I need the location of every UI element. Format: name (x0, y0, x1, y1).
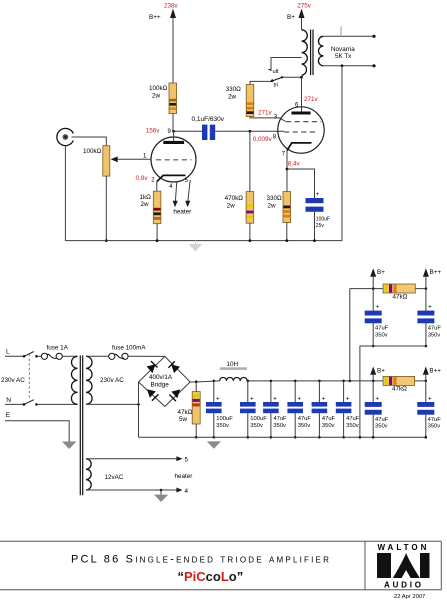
wire secondary top lead (323, 35, 374, 37)
wire secondary top to fuse (86, 355, 109, 357)
svg-text:8,4v: 8,4v (288, 161, 301, 168)
resistor 100k plate (triode anode load) (149, 83, 177, 114)
switch mains L (24, 352, 34, 357)
transformer T1 core (80, 355, 82, 495)
svg-text:+: + (297, 395, 301, 402)
svg-text:350v: 350v (273, 423, 286, 429)
wire L (5, 355, 24, 357)
svg-text:+: + (316, 191, 320, 198)
svg-text:+: + (322, 395, 326, 402)
svg-text:4: 4 (185, 488, 189, 495)
node B++ upper arrow (423, 268, 441, 290)
svg-text:47uF: 47uF (375, 326, 389, 332)
wire heater pin 4 (86, 488, 189, 495)
wire E to ground (5, 421, 69, 442)
wire anode to coupling cap (174, 130, 202, 132)
svg-text:2w: 2w (228, 93, 237, 100)
svg-text:100kΩ: 100kΩ (149, 85, 168, 92)
triode U1a PCL86 (151, 131, 196, 182)
transformer secondary (318, 36, 323, 66)
svg-text:E: E (6, 412, 11, 419)
transformer T1 mains primary (71, 356, 77, 404)
svg-text:47uF: 47uF (428, 417, 442, 423)
capacitor C3 47uF 350v (263, 380, 287, 439)
wire secondary bottom to bridge left leg (86, 403, 139, 405)
svg-text:400v/1A: 400v/1A (149, 374, 173, 381)
title block top line (0, 540, 441, 542)
0v rail power supply (139, 436, 426, 438)
svg-text:+: + (428, 395, 432, 402)
potentiometer 100k volume (83, 146, 110, 176)
svg-text:2w: 2w (268, 202, 277, 209)
svg-text:ult: ult (273, 69, 280, 75)
svg-text:5K Tx: 5K Tx (335, 53, 352, 60)
switch ul/tri (269, 69, 284, 89)
svg-text:12vAC: 12vAC (105, 474, 124, 481)
node heater ground junction (160, 489, 163, 492)
wire bridge + output rail (190, 381, 196, 383)
wire jack shell down (64, 146, 66, 241)
node secondary to ground drop (341, 64, 344, 67)
svg-text:275v: 275v (297, 3, 312, 10)
wire plate resistor to anode node (172, 114, 174, 132)
svg-text:238v: 238v (164, 3, 179, 10)
svg-text:+: + (375, 303, 379, 310)
svg-text:230v AC: 230v AC (1, 377, 25, 384)
heater pins 4 and 5 with arrows (169, 178, 191, 215)
capacitor 47uF 350v lower right (417, 381, 441, 439)
wire ul tap (271, 58, 302, 71)
svg-text:47uF: 47uF (428, 326, 442, 332)
label Novarria 5K Tx (331, 46, 355, 60)
upper B+ network + wire (350, 288, 426, 290)
svg-text:+: + (216, 395, 220, 402)
wire feed to upper network (349, 380, 352, 383)
svg-text:350v: 350v (428, 424, 441, 430)
wire jack to volume pot (72, 137, 107, 146)
walton audio logo graphic (377, 553, 430, 578)
svg-text:fuse 100mA: fuse 100mA (112, 345, 146, 352)
svg-text:350v: 350v (375, 424, 388, 430)
terminal dot top (372, 35, 375, 38)
node B+ supply arrow (287, 3, 312, 30)
title block bottom line (0, 589, 441, 591)
ground symbol top section (189, 241, 203, 252)
fuse 1A (38, 345, 78, 360)
wire bridge left corner down to 0v rail (138, 382, 140, 437)
capacitor C5 47uF 350v (312, 380, 336, 439)
capacitor 47uF 350v upper right (417, 289, 441, 348)
svg-text:350v: 350v (298, 423, 311, 429)
terminal dot bottom (372, 64, 375, 67)
svg-text:5w: 5w (179, 416, 188, 423)
capacitor 0,1uF/630v coupling (192, 116, 225, 140)
svg-text:10H: 10H (227, 361, 239, 368)
capacitor C6 47uF 350v (336, 380, 360, 439)
svg-text:0,009v: 0,009v (253, 136, 273, 143)
wire secondary ground drop (341, 66, 343, 241)
svg-text:47kΩ: 47kΩ (178, 409, 193, 416)
ground symbol ps rail (207, 441, 221, 448)
svg-text:330Ω: 330Ω (226, 86, 242, 93)
switch link dashed (28, 354, 30, 400)
diode top-left (147, 361, 158, 373)
wire 330R to rail (286, 223, 288, 241)
svg-text:47kΩ: 47kΩ (393, 293, 408, 300)
svg-text:47kΩ: 47kΩ (392, 386, 407, 393)
svg-text:350v: 350v (250, 423, 263, 429)
upper network ground return (360, 346, 426, 437)
wire 470k to rail (249, 223, 251, 240)
diode bottom-right (170, 389, 181, 401)
svg-text:tri: tri (274, 82, 279, 88)
svg-text:0,8v: 0,8v (136, 175, 149, 182)
capacitor 47uF 350v upper left (365, 289, 389, 348)
logo box left border (364, 541, 366, 590)
svg-text:350v: 350v (375, 332, 388, 338)
svg-text:+: + (375, 395, 379, 402)
svg-text:5: 5 (185, 457, 189, 464)
fuse 100mA (109, 345, 165, 360)
capacitor C2 100uF 350v (240, 380, 267, 439)
node grid junction (249, 130, 252, 133)
transformer T2 output Novarria 5K primary (302, 30, 308, 76)
svg-text:+: + (273, 395, 277, 402)
pin 1 grid wire with wiper arrow (111, 153, 152, 162)
svg-text:1kΩ: 1kΩ (140, 194, 152, 201)
wire secondary bottom lead (323, 65, 374, 67)
svg-text:156v: 156v (146, 128, 161, 135)
speaker terminal tick (340, 27, 342, 37)
svg-text:B+: B+ (287, 14, 295, 21)
svg-text:0,1uF/630v: 0,1uF/630v (192, 116, 225, 123)
transformer core (311, 30, 313, 76)
svg-text:+: + (428, 303, 432, 310)
switch mains N (24, 400, 34, 405)
transformer T1 secondary 230v (86, 356, 92, 404)
wire 1k to ground rail (156, 224, 158, 241)
wire switch common to screen resistor (250, 81, 270, 84)
svg-text:350v: 350v (216, 423, 229, 429)
node cathode junction (286, 168, 289, 171)
svg-text:N: N (6, 397, 11, 404)
svg-text:“PiCcoLo”: “PiCcoLo” (178, 569, 244, 584)
resistor 1k 2w cathode (140, 191, 161, 224)
svg-text:B+: B+ (377, 367, 385, 374)
svg-text:fuse 1A: fuse 1A (47, 345, 69, 352)
svg-text:47uF: 47uF (375, 417, 389, 423)
svg-text:25v: 25v (316, 223, 325, 229)
resistor 47k upper dropper (383, 284, 415, 300)
node B+ lower arrow (370, 367, 385, 383)
svg-text:heater: heater (173, 209, 191, 216)
wire N to transformer (38, 403, 78, 405)
svg-text:271v: 271v (258, 110, 273, 117)
svg-text:470kΩ: 470kΩ (225, 195, 244, 202)
wire pentode anode to transformer (301, 77, 303, 111)
diode bottom-left (147, 389, 158, 401)
svg-text:PCL 86 Single-ended triode amp: PCL 86 Single-ended triode amplifier (71, 554, 331, 566)
svg-text:B++: B++ (430, 269, 442, 276)
pentode U1b PCL86 (278, 107, 324, 153)
svg-text:B+: B+ (377, 269, 385, 276)
svg-text:B++: B++ (149, 14, 161, 21)
node B++ lower arrow (423, 367, 441, 383)
svg-text:100uF: 100uF (216, 416, 233, 422)
svg-text:47uF: 47uF (346, 416, 360, 422)
wire coupling cap to pentode grid (215, 130, 284, 132)
ground rail top section (65, 240, 342, 242)
svg-text:230v AC: 230v AC (100, 377, 124, 384)
resistor 330R 2w screen (226, 85, 254, 117)
capacitor C4 47uF 350v (287, 380, 311, 439)
ground symbol heater (154, 490, 168, 502)
transformer T1 heater winding 12vAC (86, 459, 91, 490)
svg-text:Bridge: Bridge (151, 382, 170, 389)
B+ main filter rail (247, 380, 426, 382)
svg-text:350v: 350v (322, 423, 335, 429)
svg-text:heater: heater (175, 473, 193, 480)
svg-text:350v: 350v (346, 423, 359, 429)
diode top-right (168, 361, 180, 373)
svg-text:47uF: 47uF (273, 416, 287, 422)
wire pot to ground rail (105, 176, 107, 241)
svg-text:271v: 271v (304, 96, 319, 103)
resistor 470k 2w grid leak (225, 131, 254, 223)
wire screen resistor to pin 3 (250, 117, 286, 122)
node B++ supply arrow (149, 3, 179, 83)
svg-text:2w: 2w (152, 92, 161, 99)
svg-text:350v: 350v (428, 332, 441, 338)
wire pentode cathode down (286, 151, 288, 192)
svg-text:AUDIO: AUDIO (384, 581, 424, 590)
svg-text:B++: B++ (429, 367, 441, 374)
wire N (5, 403, 24, 405)
capacitor C1 100uF 350v (206, 380, 233, 439)
svg-text:2w: 2w (141, 201, 150, 208)
svg-text:330Ω: 330Ω (267, 195, 283, 202)
svg-text:2w: 2w (227, 202, 236, 209)
svg-text:100uF: 100uF (250, 416, 267, 422)
svg-text:+: + (250, 395, 254, 402)
capacitor 100uF 25v cathode bypass (306, 191, 330, 229)
wire cathode to 1k resistor (156, 182, 158, 192)
svg-text:100kΩ: 100kΩ (83, 148, 102, 155)
bridge rectifier 400v/1A (139, 356, 191, 406)
svg-text:100uF: 100uF (316, 216, 330, 222)
node B+ upper arrow (370, 268, 385, 290)
ground symbol earth (62, 442, 76, 450)
choke 10H (220, 361, 248, 381)
resistor 330R 2w pentode cathode (267, 192, 291, 223)
resistor 47k lower dropper (383, 376, 415, 392)
wire cathode junction to bypass cap (287, 169, 315, 198)
svg-text:+: + (346, 395, 350, 402)
svg-text:47uF: 47uF (322, 416, 336, 422)
wire bypass cap to rail (314, 212, 316, 241)
node pin9 junction (172, 130, 175, 133)
svg-text:Novarria: Novarria (331, 46, 355, 53)
wire switch to anode line (282, 76, 302, 78)
logo box right border (440, 541, 442, 590)
capacitor 47uF 350v lower left (365, 381, 389, 439)
resistor 47k 5w bleeder (178, 380, 201, 438)
svg-text:L: L (6, 348, 10, 355)
svg-text:47uF: 47uF (298, 416, 312, 422)
input jack J1 (57, 128, 73, 145)
wire heater pin 5 (86, 456, 189, 463)
svg-text:22 Apr 2007: 22 Apr 2007 (394, 594, 425, 600)
svg-text:WALTON: WALTON (377, 543, 429, 552)
